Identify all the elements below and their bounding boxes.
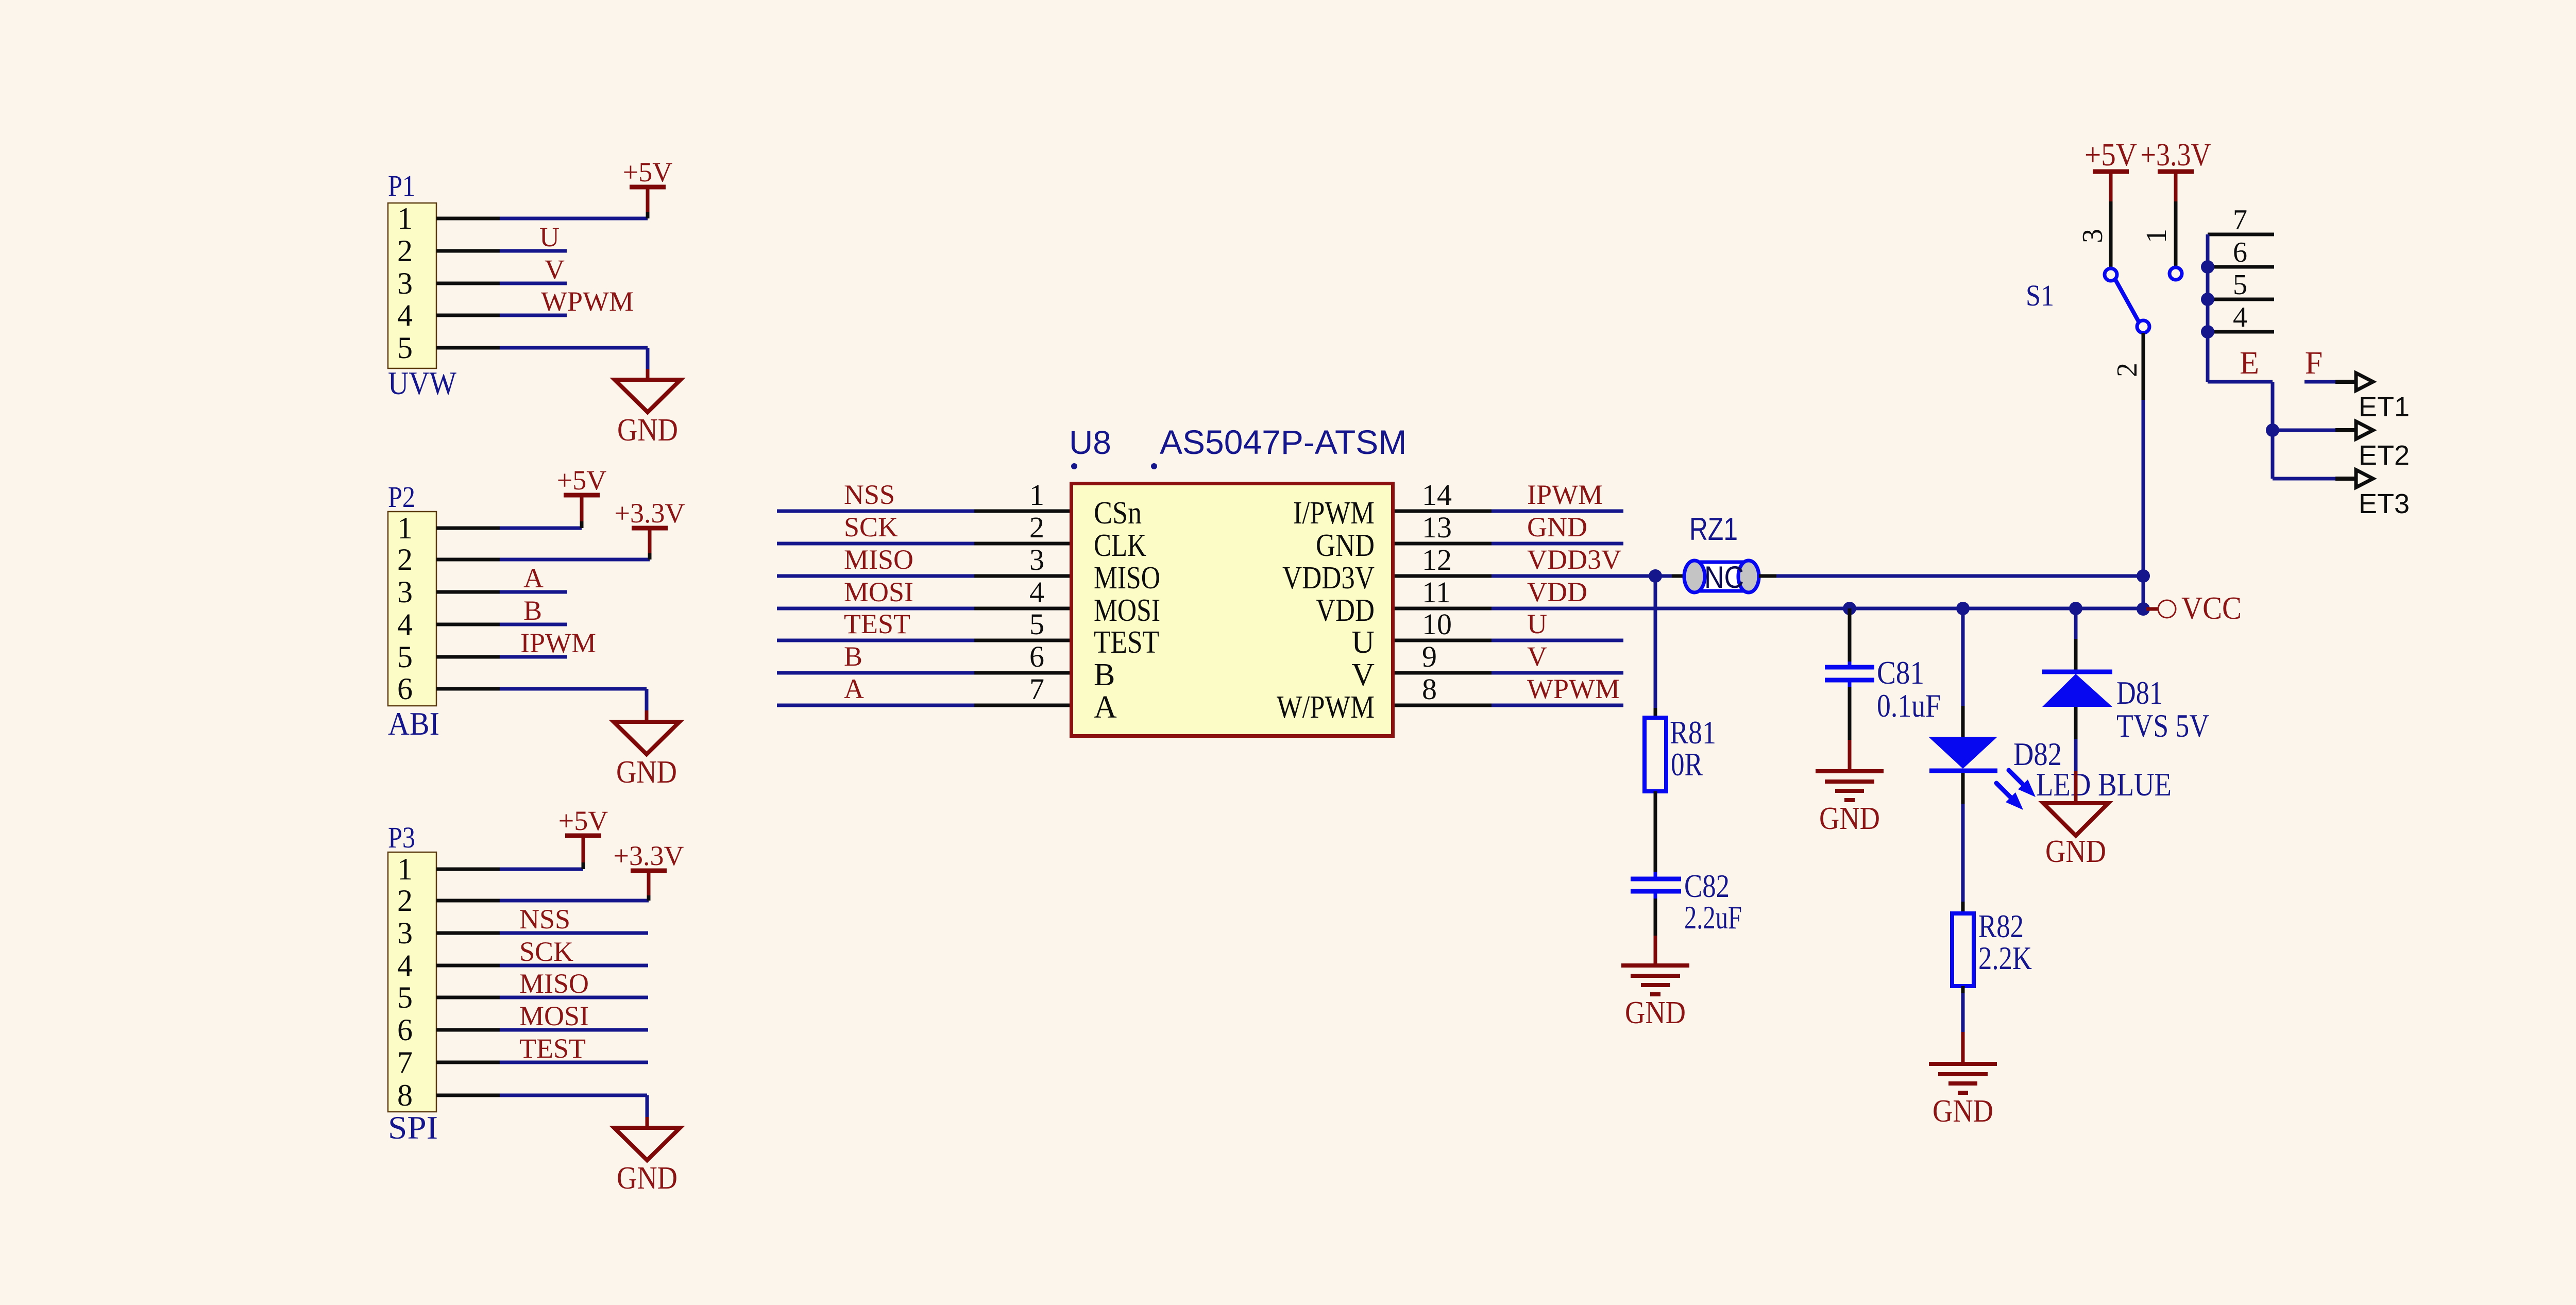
U8 pin 14 stub bbox=[1395, 510, 1492, 513]
wire net TEST (P3.7) bbox=[500, 1061, 648, 1064]
wire C82 to GND bbox=[1654, 899, 1657, 964]
wire net MISO to U8 pin 3 bbox=[777, 574, 1070, 578]
svg-text:P1: P1 bbox=[388, 169, 415, 202]
junction header pin 4 bbox=[2201, 325, 2214, 338]
U8 pin 12 stub bbox=[1395, 574, 1492, 578]
P3 pin 2 stub bbox=[436, 899, 500, 903]
power +3.3V (P2) bbox=[615, 498, 685, 529]
wire VCC to C81 bbox=[1848, 608, 1852, 667]
wire VCC to D82 bbox=[1961, 608, 1965, 737]
svg-text:+3.3V: +3.3V bbox=[2141, 138, 2211, 173]
svg-text:5: 5 bbox=[397, 980, 413, 1014]
svg-text:3: 3 bbox=[397, 916, 413, 950]
svg-text:14: 14 bbox=[1422, 478, 1452, 512]
wire to ET3 bbox=[2273, 477, 2336, 481]
wire R81 to C82 bbox=[1654, 791, 1657, 873]
P3 pin 8 stub bbox=[436, 1094, 500, 1097]
wire +3.3V to S1.1 bbox=[2174, 172, 2178, 267]
wire net IPWM (right stub) bbox=[1492, 510, 1623, 513]
U8 pin 9 stub bbox=[1395, 671, 1492, 675]
svg-text:NSS: NSS bbox=[519, 904, 570, 935]
power +5V (P3) bbox=[558, 805, 608, 836]
svg-text:+3.3V: +3.3V bbox=[614, 840, 684, 871]
wire net A to U8 pin 7 bbox=[777, 704, 1070, 707]
wire net MOSI (P3.6) bbox=[500, 1028, 648, 1032]
wire net V (P1.3) bbox=[500, 282, 567, 285]
svg-text:VDD3V: VDD3V bbox=[1527, 544, 1621, 575]
P3 pin 5 stub bbox=[436, 996, 500, 999]
svg-text:1: 1 bbox=[1029, 478, 1044, 512]
svg-text:C82: C82 bbox=[1684, 868, 1730, 904]
wire P3.1 to +5V bbox=[500, 836, 583, 869]
wire net WPWM (P1.4) bbox=[500, 314, 567, 317]
U8 pin 10 stub bbox=[1395, 639, 1492, 642]
svg-text:S1: S1 bbox=[2026, 279, 2054, 312]
wire net TEST to U8 pin 5 bbox=[777, 639, 1070, 642]
svg-text:1: 1 bbox=[2141, 229, 2173, 243]
svg-text:6: 6 bbox=[397, 672, 413, 706]
wire RZ1 to S1 junction bbox=[1776, 574, 2143, 578]
svg-text:2: 2 bbox=[397, 543, 413, 577]
svg-text:8: 8 bbox=[397, 1078, 413, 1112]
svg-text:U: U bbox=[1527, 608, 1547, 639]
net arrow ET3 bbox=[2335, 470, 2373, 487]
wire net MISO (P3.5) bbox=[500, 996, 648, 999]
capacitor C82 bbox=[1631, 872, 1681, 899]
connector P2 body bbox=[388, 512, 436, 706]
wire +5V to S1.3 bbox=[2109, 172, 2113, 268]
D82 light arrow 2 bbox=[1996, 783, 2023, 810]
P2 pin 5 stub bbox=[436, 655, 500, 659]
svg-text:MOSI: MOSI bbox=[519, 1001, 589, 1031]
svg-text:+5V: +5V bbox=[557, 465, 606, 496]
wire net IPWM (P2.5) bbox=[500, 655, 567, 659]
svg-text:NC: NC bbox=[1704, 560, 1744, 595]
switch S1 contact 1 bbox=[2170, 267, 2182, 280]
svg-text:VDD: VDD bbox=[1316, 593, 1375, 628]
svg-text:GND: GND bbox=[617, 413, 678, 448]
svg-text:MOSI: MOSI bbox=[844, 577, 913, 607]
jumper RZ1 body bbox=[1684, 561, 1759, 592]
svg-text:TEST: TEST bbox=[519, 1033, 586, 1064]
wire net U (P1.2) bbox=[500, 249, 567, 253]
U8 part name origin dot bbox=[1151, 463, 1157, 469]
svg-text:GND: GND bbox=[617, 1161, 677, 1196]
net arrow ET1 bbox=[2335, 373, 2373, 391]
svg-text:NSS: NSS bbox=[844, 479, 895, 510]
svg-text:4: 4 bbox=[397, 948, 413, 982]
svg-text:R82: R82 bbox=[1978, 908, 2024, 944]
svg-text:D81: D81 bbox=[2116, 675, 2163, 711]
wire net MOSI to U8 pin 4 bbox=[777, 607, 1070, 611]
svg-text:6: 6 bbox=[1029, 640, 1044, 673]
svg-text:GND: GND bbox=[1316, 528, 1375, 563]
resistor R81 bbox=[1645, 718, 1666, 791]
wire VDD to VCC bbox=[1492, 607, 2143, 611]
junction node D82 bbox=[1956, 602, 1970, 615]
svg-text:12: 12 bbox=[1422, 543, 1452, 577]
svg-text:MOSI: MOSI bbox=[1094, 593, 1160, 628]
svg-text:W/PWM: W/PWM bbox=[1277, 690, 1375, 725]
svg-text:TEST: TEST bbox=[1094, 625, 1159, 660]
junction node ET2 bbox=[2266, 423, 2279, 437]
P2 pin 1 stub bbox=[436, 527, 500, 530]
node VCC circle bbox=[2158, 600, 2176, 618]
svg-text:+5V: +5V bbox=[2084, 138, 2137, 173]
svg-text:3: 3 bbox=[1029, 543, 1044, 577]
wire net E elbow bbox=[2208, 382, 2273, 479]
svg-text:A: A bbox=[1094, 690, 1117, 725]
svg-text:2: 2 bbox=[2111, 363, 2143, 377]
power +3.3V (S1) bbox=[2141, 138, 2211, 173]
svg-text:4: 4 bbox=[1029, 575, 1044, 609]
connector P1 body bbox=[388, 203, 436, 368]
svg-text:+5V: +5V bbox=[558, 805, 608, 836]
wire net A (P2.3) bbox=[500, 590, 567, 594]
svg-text:I/PWM: I/PWM bbox=[1293, 496, 1375, 531]
svg-text:2.2K: 2.2K bbox=[1978, 940, 2032, 976]
svg-text:4: 4 bbox=[397, 298, 413, 332]
svg-text:GND: GND bbox=[1527, 512, 1587, 543]
svg-text:ET1: ET1 bbox=[2359, 392, 2410, 422]
svg-text:GND: GND bbox=[1933, 1094, 1993, 1129]
wire to ET2 bbox=[2273, 429, 2336, 432]
svg-text:2: 2 bbox=[397, 234, 413, 268]
svg-text:ET3: ET3 bbox=[2359, 488, 2410, 519]
svg-text:ABI: ABI bbox=[388, 705, 439, 742]
switch S1 contact 3 bbox=[2105, 268, 2117, 281]
svg-text:B: B bbox=[844, 641, 862, 672]
U8 designator origin dot bbox=[1071, 463, 1077, 469]
svg-text:VDD: VDD bbox=[1527, 577, 1587, 607]
junction node VDD3V/R81 bbox=[1649, 569, 1662, 583]
wire net V (right stub) bbox=[1492, 671, 1623, 675]
svg-text:LED BLUE: LED BLUE bbox=[2036, 767, 2172, 803]
svg-text:3: 3 bbox=[397, 266, 413, 300]
svg-text:0.1uF: 0.1uF bbox=[1877, 688, 1941, 724]
P2 pin 6 stub bbox=[436, 687, 500, 691]
svg-text:4: 4 bbox=[397, 607, 413, 641]
svg-text:AS5047P-ATSM: AS5047P-ATSM bbox=[1160, 423, 1406, 461]
svg-text:CSn: CSn bbox=[1094, 496, 1142, 531]
svg-text:MISO: MISO bbox=[1094, 561, 1160, 596]
svg-text:IPWM: IPWM bbox=[1527, 479, 1603, 510]
svg-text:GND: GND bbox=[2045, 834, 2106, 869]
P2 pin 3 stub bbox=[436, 590, 500, 594]
net arrow ET2 bbox=[2335, 421, 2373, 439]
svg-text:2: 2 bbox=[1029, 511, 1044, 544]
svg-text:7: 7 bbox=[1029, 672, 1044, 706]
svg-text:V: V bbox=[1527, 641, 1547, 672]
svg-text:+5V: +5V bbox=[623, 157, 672, 188]
U8 pin 8 stub bbox=[1395, 704, 1492, 707]
P1 pin 4 stub bbox=[436, 314, 500, 317]
svg-text:F: F bbox=[2305, 346, 2323, 381]
switch S1 blade bbox=[2115, 280, 2139, 321]
svg-text:1: 1 bbox=[397, 201, 413, 235]
power +5V (P1) bbox=[623, 157, 672, 188]
P3 pin 1 stub bbox=[436, 868, 500, 871]
ground GND (P1) bbox=[615, 380, 681, 448]
wire P1.5 to GND bbox=[500, 348, 648, 380]
wire S1.2 down bbox=[2142, 333, 2145, 576]
svg-text:CLK: CLK bbox=[1094, 528, 1146, 563]
wire D81 to GND bbox=[2074, 707, 2078, 803]
svg-text:TVS 5V: TVS 5V bbox=[2116, 708, 2209, 744]
svg-text:V: V bbox=[545, 254, 565, 285]
svg-text:MISO: MISO bbox=[844, 544, 913, 575]
svg-text:0R: 0R bbox=[1671, 747, 1703, 783]
header pin 7 stub bbox=[2208, 233, 2274, 236]
wire net GND (right stub) bbox=[1492, 542, 1623, 546]
wire net WPWM (right stub) bbox=[1492, 704, 1623, 707]
ground GND (D81) bbox=[2043, 803, 2108, 869]
wire RZ1 right lead bbox=[1759, 574, 1776, 578]
wire net SCK to U8 pin 2 bbox=[777, 542, 1070, 546]
P1 pin 5 stub bbox=[436, 346, 500, 350]
svg-text:GND: GND bbox=[1819, 801, 1880, 836]
svg-text:RZ1: RZ1 bbox=[1689, 512, 1738, 547]
U8 pin 13 stub bbox=[1395, 542, 1492, 546]
wire P2.6 to GND bbox=[500, 689, 647, 722]
wire net SCK (P3.4) bbox=[500, 964, 648, 968]
svg-text:6: 6 bbox=[2233, 236, 2247, 268]
wire P2.1 to +5V bbox=[500, 495, 582, 528]
svg-text:5: 5 bbox=[2233, 269, 2247, 301]
junction node D81 bbox=[2069, 602, 2082, 615]
U8 pin 11 stub bbox=[1395, 607, 1492, 611]
svg-text:11: 11 bbox=[1422, 575, 1451, 609]
svg-text:1: 1 bbox=[397, 511, 413, 545]
wire P1.1 to +5V bbox=[500, 187, 648, 218]
svg-text:10: 10 bbox=[1422, 607, 1452, 641]
wire P3.8 to GND bbox=[500, 1095, 647, 1128]
svg-text:TEST: TEST bbox=[844, 608, 910, 639]
svg-text:IPWM: IPWM bbox=[520, 628, 596, 658]
resistor R82 bbox=[1952, 913, 1974, 986]
svg-text:P3: P3 bbox=[388, 821, 415, 854]
svg-text:7: 7 bbox=[397, 1045, 413, 1079]
P1 pin 1 stub bbox=[436, 217, 500, 221]
header pin 5 stub bbox=[2208, 298, 2274, 301]
header pin 4 stub bbox=[2208, 330, 2274, 334]
D82 light arrow 1 bbox=[2009, 770, 2036, 797]
ground GND (C82) bbox=[1621, 965, 1689, 1030]
power +3.3V (P3) bbox=[614, 840, 684, 871]
wire net NSS (P3.3) bbox=[500, 931, 648, 935]
wire R82 to GND bbox=[1961, 986, 1965, 1062]
svg-text:SCK: SCK bbox=[519, 936, 573, 967]
svg-text:2: 2 bbox=[397, 884, 413, 918]
capacitor C81 bbox=[1825, 667, 1874, 680]
svg-text:U: U bbox=[539, 222, 560, 252]
wire S1 vertical between rows bbox=[2142, 576, 2145, 609]
svg-text:A: A bbox=[523, 563, 544, 594]
svg-text:A: A bbox=[844, 673, 864, 704]
ground GND (R82) bbox=[1929, 1064, 1997, 1129]
svg-text:UVW: UVW bbox=[388, 365, 457, 401]
svg-text:3: 3 bbox=[2077, 229, 2109, 243]
svg-text:VDD3V: VDD3V bbox=[1282, 561, 1375, 596]
svg-text:VCC: VCC bbox=[2181, 591, 2242, 626]
svg-text:C81: C81 bbox=[1877, 655, 1924, 691]
P2 pin 4 stub bbox=[436, 623, 500, 626]
wire VCC to D81 bbox=[2074, 608, 2078, 672]
ground GND (C81) bbox=[1816, 771, 1884, 836]
svg-text:U: U bbox=[1351, 625, 1375, 660]
TVS diode D81 bbox=[2042, 672, 2112, 707]
junction node C81 bbox=[1843, 602, 1856, 615]
svg-text:R81: R81 bbox=[1670, 715, 1716, 751]
svg-text:5: 5 bbox=[397, 640, 413, 674]
wire D82 to R82 bbox=[1961, 773, 1965, 914]
P3 pin 3 stub bbox=[436, 931, 500, 935]
svg-text:6: 6 bbox=[397, 1013, 413, 1047]
wire net B (P2.4) bbox=[500, 623, 567, 626]
wire net U (right stub) bbox=[1492, 639, 1623, 642]
wire P3.2 to +3.3V bbox=[500, 871, 649, 901]
ground GND (P3) bbox=[614, 1128, 680, 1196]
wire VDD3V junction to R81 bbox=[1654, 576, 1657, 719]
P3 pin 7 stub bbox=[436, 1061, 500, 1064]
power +5V (S1) bbox=[2084, 138, 2137, 173]
P1 pin 3 stub bbox=[436, 282, 500, 285]
connector P3 body bbox=[388, 852, 436, 1112]
junction header pin 6 bbox=[2201, 260, 2214, 274]
wire net F bbox=[2304, 380, 2336, 384]
P3 pin 6 stub bbox=[436, 1028, 500, 1032]
svg-text:WPWM: WPWM bbox=[1527, 673, 1620, 704]
svg-text:SCK: SCK bbox=[844, 512, 898, 543]
wire RZ1 left lead bbox=[1672, 574, 1685, 578]
svg-text:1: 1 bbox=[397, 852, 413, 886]
svg-text:4: 4 bbox=[2233, 301, 2247, 333]
svg-text:SPI: SPI bbox=[388, 1109, 438, 1146]
svg-text:E: E bbox=[2240, 346, 2259, 381]
svg-text:GND: GND bbox=[1625, 995, 1686, 1030]
svg-text:9: 9 bbox=[1422, 640, 1437, 673]
svg-text:B: B bbox=[1094, 657, 1115, 692]
IC U8 body bbox=[1072, 484, 1393, 736]
svg-text:U8: U8 bbox=[1069, 424, 1111, 461]
LED D82 bbox=[1928, 737, 1997, 771]
junction node RZ1/S1 bbox=[2137, 569, 2150, 583]
header pin 6 stub bbox=[2208, 265, 2274, 269]
wire P2.2 to +3.3V bbox=[500, 528, 650, 560]
svg-text:7: 7 bbox=[2233, 204, 2247, 236]
P2 pin 2 stub bbox=[436, 558, 500, 562]
ground GND (P2) bbox=[614, 722, 680, 790]
P1 pin 2 stub bbox=[436, 249, 500, 253]
svg-text:8: 8 bbox=[1422, 672, 1437, 706]
wire VDD3V to RZ1 bbox=[1492, 574, 1672, 578]
svg-text:3: 3 bbox=[397, 575, 413, 609]
P3 pin 4 stub bbox=[436, 964, 500, 968]
junction header pin 5 bbox=[2201, 293, 2214, 306]
wire net B to U8 pin 6 bbox=[777, 671, 1070, 675]
svg-text:B: B bbox=[523, 595, 542, 626]
svg-text:2.2uF: 2.2uF bbox=[1684, 900, 1742, 936]
svg-text:+3.3V: +3.3V bbox=[615, 498, 685, 529]
switch S1 common contact 2 bbox=[2137, 320, 2149, 333]
svg-text:P2: P2 bbox=[388, 480, 415, 514]
svg-text:GND: GND bbox=[616, 755, 677, 790]
svg-text:5: 5 bbox=[397, 331, 413, 365]
svg-text:WPWM: WPWM bbox=[541, 286, 634, 317]
svg-text:ET2: ET2 bbox=[2359, 440, 2410, 471]
wire C81 to GND bbox=[1848, 680, 1852, 770]
svg-text:V: V bbox=[1351, 657, 1375, 692]
wire header bus vertical bbox=[2206, 234, 2210, 382]
svg-text:13: 13 bbox=[1422, 511, 1452, 544]
svg-text:MISO: MISO bbox=[519, 968, 589, 999]
junction node VCC bbox=[2137, 602, 2150, 616]
wire VCC stub bbox=[2146, 607, 2158, 611]
svg-text:5: 5 bbox=[1029, 607, 1044, 641]
power +5V (P2) bbox=[557, 465, 606, 496]
wire net NSS to U8 pin 1 bbox=[777, 510, 1070, 513]
